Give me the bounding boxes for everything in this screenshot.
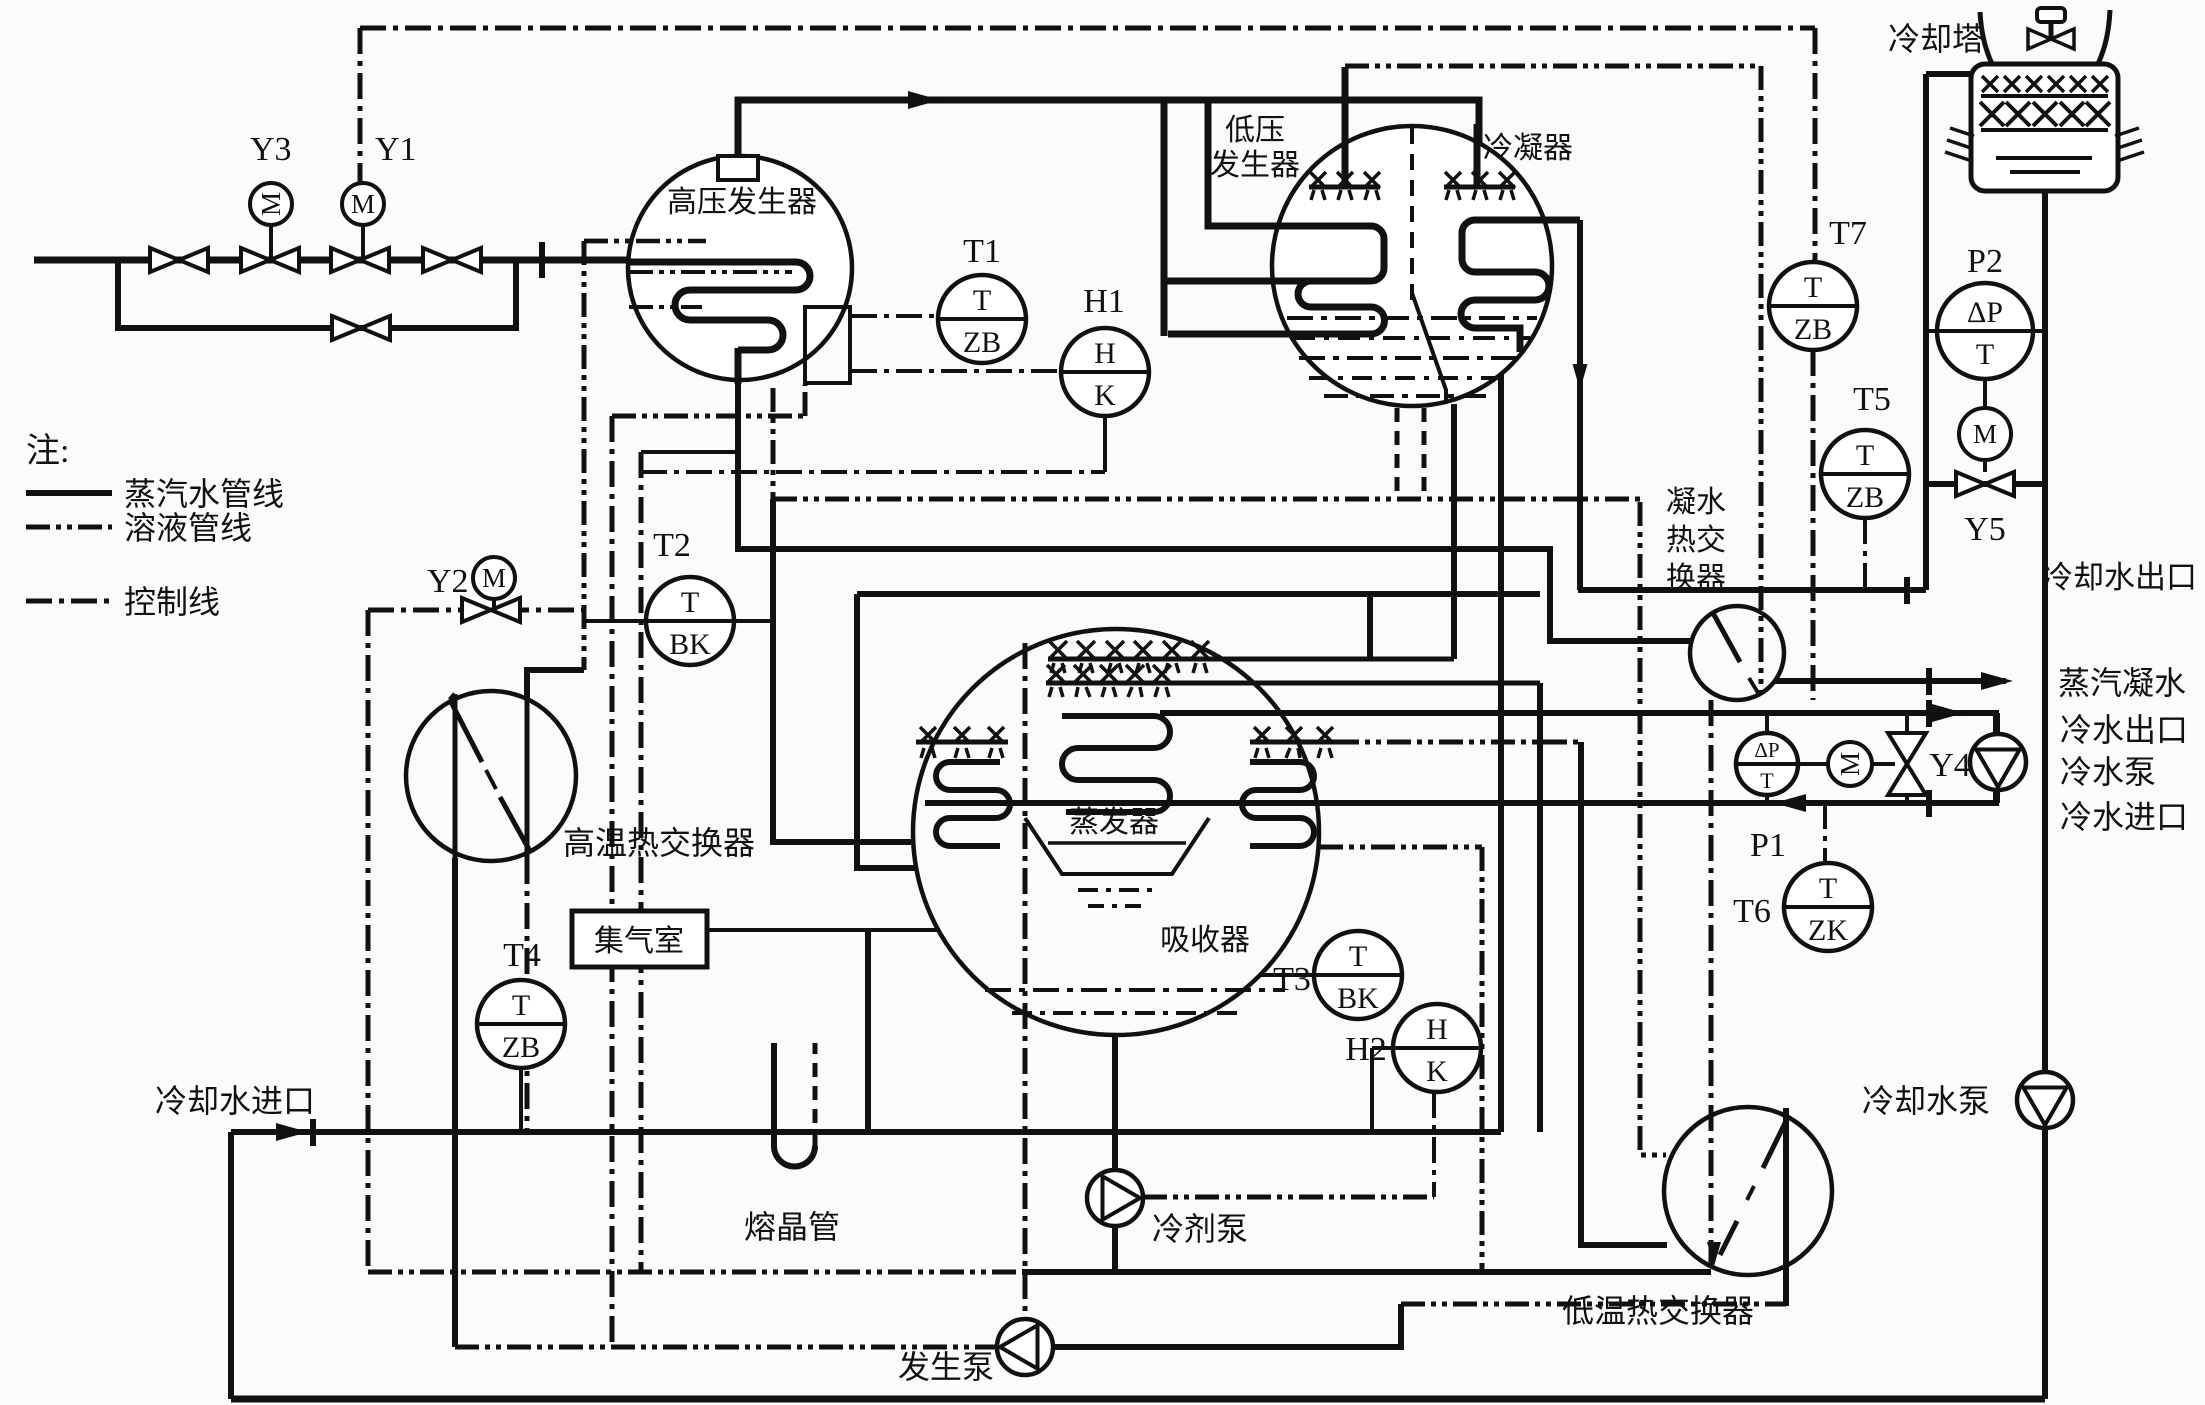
wire HT HX right drop dashed [525, 858, 530, 1132]
svg-text:H1: H1 [1083, 283, 1125, 320]
svg-text:换器: 换器 [1666, 562, 1726, 595]
wire LP coil exit row [1168, 331, 1290, 338]
svg-text:高压发生器: 高压发生器 [667, 186, 817, 219]
box HP generator level chamber [805, 307, 850, 383]
condenser level line 3 [1299, 356, 1521, 360]
svg-text:ZB: ZB [963, 326, 1001, 359]
svg-text:T: T [1804, 271, 1822, 304]
wire HP level line (over) [584, 239, 706, 244]
wire cooling water inlet run [231, 1129, 1501, 1135]
svg-text:H: H [1094, 337, 1116, 370]
HT HX right internal line [525, 694, 530, 858]
svg-text:冷水泵: 冷水泵 [2060, 754, 2156, 790]
LT HX diagonal lower [1720, 1221, 1737, 1255]
instrument P1 [1736, 733, 1798, 795]
instrument T1 [938, 233, 1026, 363]
vessel condensate heat exchanger 凝水热交换器 [1690, 606, 1784, 700]
wire cooling inlet left drop [228, 1132, 234, 1399]
wire absorber bottom to refrigerant pump [1112, 1035, 1118, 1170]
svg-text:K: K [1426, 1055, 1448, 1088]
wire refrigerant pump bottom stub [1112, 1226, 1118, 1272]
HT HX diagonal upper [450, 694, 482, 762]
arrow cooling inlet [276, 1123, 308, 1141]
svg-text:ZB: ZB [1846, 481, 1884, 514]
svg-text:冷水进口: 冷水进口 [2060, 799, 2188, 835]
wire HP generator vapor to condenser spray [738, 100, 1479, 186]
vessel LP generator / condenser [1272, 126, 1552, 406]
wire H2 left stub [1372, 1046, 1395, 1050]
wire control to T1 [851, 314, 938, 318]
wire P1 top stub [1765, 713, 1769, 734]
wire LP coil feed row inside vessel [1272, 278, 1313, 285]
coil evaporator [1062, 716, 1170, 812]
motor M of Y3 [250, 183, 292, 225]
tick chilled inlet line [1926, 790, 1932, 817]
wire bottom return rail [231, 1396, 2045, 1403]
svg-text:ZK: ZK [1808, 914, 1848, 947]
pump chilled water 冷水泵 [1970, 734, 2026, 790]
spray x-marks [1049, 641, 1209, 659]
svg-text:Y4: Y4 [1929, 747, 1971, 784]
svg-text:蒸汽水管线: 蒸汽水管线 [124, 476, 284, 512]
wire Y3 motor stem [269, 226, 273, 258]
wire absorber outlet drop [1480, 847, 1485, 1272]
wire motor to Y4 [1872, 762, 1895, 766]
instrument T5 [1821, 381, 1909, 518]
coil absorber right [1242, 762, 1314, 846]
coil condenser [1461, 220, 1580, 352]
wire cooling pump discharge [2042, 1128, 2048, 1399]
svg-text:T: T [1349, 940, 1367, 973]
wire condenser drain A drop [1451, 404, 1457, 659]
wire HP generator level line 2 [629, 269, 792, 273]
svg-text:BK: BK [669, 628, 711, 661]
svg-text:T: T [681, 586, 699, 619]
arrow chilled water out [1932, 704, 1964, 722]
wire control drop through LT HX [1709, 700, 1714, 1267]
valve Y4 [1888, 733, 1926, 795]
coil absorber left [936, 762, 1010, 846]
wire condenser spray feed inside vessel [1474, 124, 1481, 186]
wire thin link to HP drop [641, 450, 736, 454]
valve Y5 [1956, 472, 2014, 496]
wire cooling water outlet run [1578, 587, 1926, 593]
svg-text:T5: T5 [1853, 381, 1891, 418]
wire P1 bottom stub [1765, 794, 1769, 803]
legend sample solution line [26, 525, 112, 530]
svg-text:Y3: Y3 [250, 131, 292, 168]
wire T3 stub [1260, 973, 1314, 977]
instrument T3 [1314, 931, 1402, 1019]
wire refrigerant pump outlet [1143, 1195, 1434, 1200]
spray ticks [921, 748, 1003, 758]
svg-text:控制线: 控制线 [124, 584, 220, 620]
valve bypass [332, 316, 390, 340]
tower fill line 1 [1981, 94, 2108, 98]
wire HP drain to condensate HX [738, 352, 1692, 641]
svg-text:T: T [1976, 338, 1994, 371]
condensate HX diagonal upper [1713, 613, 1740, 662]
wire control through valve Y2 [368, 608, 584, 613]
wire H1 stem [1103, 416, 1107, 472]
svg-text:M: M [256, 192, 286, 216]
svg-text:Y1: Y1 [375, 131, 417, 168]
wire HP box stub [803, 385, 808, 416]
svg-text:凝水: 凝水 [1666, 486, 1726, 519]
instrument T2 [646, 527, 734, 665]
wire chilled water inlet [925, 792, 1996, 803]
svg-text:H: H [1426, 1013, 1448, 1046]
wire solution low rail dashed part [368, 1270, 1022, 1275]
spray x-marks [1310, 172, 1380, 188]
wire steam bypass loop [118, 260, 516, 328]
wire solution drop into absorber [773, 499, 915, 842]
svg-text:T: T [1856, 439, 1874, 472]
tray level dash 2 [1088, 904, 1148, 908]
wire LP coil row1 entry inside vessel [1274, 223, 1315, 230]
wire absorber left drop to cooling inlet [865, 930, 871, 1132]
condenser level line 1 [1287, 316, 1537, 320]
svg-text:冷却水出口: 冷却水出口 [2042, 560, 2197, 595]
wire P2 to motor [1983, 379, 1987, 413]
instrument H1 [1061, 283, 1149, 416]
wire solution from left column to HP box [612, 414, 805, 419]
absorber level line 1 [985, 988, 1285, 992]
spray ticks [1051, 663, 1207, 673]
wire LP generator coil feed drop [1161, 103, 1168, 336]
wire LP generator feed box [1208, 100, 1313, 226]
absorber level line 2 [1012, 1011, 1240, 1015]
arrow chilled water in [1774, 794, 1806, 812]
wire tower outlet down [2042, 191, 2048, 1072]
vessel HT heat exchanger 高温热交换器 [406, 691, 576, 861]
condenser level line 4 [1309, 376, 1507, 380]
spray x-marks [1047, 665, 1171, 683]
spray header LP generator [1309, 185, 1380, 190]
wire control left column B down [639, 452, 644, 1272]
arrow LT HX diagonal end [1707, 1242, 1721, 1266]
spray ticks [1311, 190, 1379, 200]
pump refrigerant 冷剂泵 [1087, 1170, 1143, 1226]
wire chilled pump bottom stub [1996, 790, 2000, 803]
svg-text:冷却水进口: 冷却水进口 [155, 1083, 315, 1119]
wire elbow into HT heat exchanger [527, 670, 584, 698]
wire motor to Y5 [1983, 455, 1987, 472]
svg-text:M: M [351, 189, 375, 219]
svg-text:T2: T2 [653, 527, 691, 564]
svg-text:高温热交换器: 高温热交换器 [563, 825, 755, 861]
svg-text:H2: H2 [1345, 1031, 1387, 1068]
tower water level 2 [2010, 170, 2080, 174]
spray ticks [1446, 190, 1514, 200]
valve Y3 [241, 248, 299, 272]
wire LP coil exit row inside vessel [1272, 331, 1292, 338]
wire gas chamber link [707, 928, 940, 932]
svg-text:T7: T7 [1829, 215, 1867, 252]
svg-text:P2: P2 [1967, 243, 2003, 280]
motor M of Y5 [1959, 408, 2011, 460]
svg-text:M: M [482, 563, 506, 593]
wire generator pump discharge [1053, 1304, 1401, 1347]
spray header absorber right [1250, 740, 1335, 745]
LT HX diagonal mid dash [1747, 1186, 1754, 1200]
svg-text:P1: P1 [1750, 827, 1786, 864]
svg-text:发生器: 发生器 [1210, 149, 1300, 182]
wire HP generator level line out [584, 239, 706, 244]
svg-text:冷凝器: 冷凝器 [1483, 132, 1573, 165]
tick on steam main [539, 242, 545, 278]
wire solution to LT HX bottom [1401, 1302, 1786, 1307]
svg-text:注:: 注: [26, 432, 69, 470]
wire melt-crystal U tube solid leg [774, 1043, 815, 1166]
condenser level line 2 [1293, 336, 1530, 340]
arrow steam line [908, 91, 940, 109]
wire condenser coil exit drop [1577, 220, 1583, 590]
svg-text:热交: 热交 [1666, 524, 1726, 557]
divider dashed in condenser [1410, 128, 1414, 300]
wire LP coil feed row [1164, 278, 1300, 285]
legend sample steam line [26, 490, 112, 496]
wire control H1 to left column [641, 470, 1105, 474]
wire P1 to motor [1797, 762, 1828, 766]
svg-text:M: M [1973, 419, 1997, 449]
wire LT HX right riser [1783, 1108, 1789, 1306]
svg-text:低温热交换器: 低温热交换器 [1562, 1293, 1754, 1329]
svg-text:ZB: ZB [1794, 313, 1832, 346]
wire solution drop left of HP generator [582, 241, 587, 670]
svg-text:ΔP: ΔP [1967, 296, 2003, 329]
spray x-marks [920, 727, 1004, 743]
legend sample control line [26, 599, 112, 604]
wire condenser left spray feed [1342, 67, 1349, 186]
svg-text:T6: T6 [1733, 893, 1771, 930]
tower fill x row 1 [1982, 76, 2108, 92]
wire control left column A down [610, 416, 615, 1347]
wire solution drop through condensate HX [1759, 66, 1764, 692]
wire H2 drop [1432, 1092, 1436, 1197]
condenser level line 5 [1324, 394, 1488, 398]
svg-text:冷却水泵: 冷却水泵 [1862, 1083, 1990, 1119]
wire HT HX left drop [452, 858, 458, 1347]
tower water level 1 [1996, 156, 2092, 160]
wire solution drop to LT heat exchanger [1640, 502, 1666, 1155]
spray ticks [1255, 748, 1332, 758]
flow arrow condenser exit [1573, 364, 1588, 390]
wire T2 right stub [734, 619, 773, 623]
svg-text:K: K [1094, 379, 1116, 412]
svg-text:蒸汽凝水: 蒸汽凝水 [2058, 665, 2186, 701]
instrument T7 [1769, 215, 1867, 350]
wire control to H1 [851, 369, 1061, 373]
instrument T6 [1784, 863, 1872, 951]
wire evaporator box top run [857, 591, 1540, 597]
spray x-marks [1445, 172, 1515, 188]
instrument H2 [1393, 1004, 1481, 1092]
tick cooling outlet [1904, 577, 1910, 604]
svg-text:集气室: 集气室 [594, 925, 684, 958]
svg-text:T4: T4 [503, 937, 541, 974]
HT HX diagonal lower [500, 797, 531, 853]
svg-text:冷水出口: 冷水出口 [2060, 712, 2188, 748]
wire evaporator spray header 2 [1046, 681, 1540, 686]
cooling tower 冷却塔 [1971, 8, 2118, 191]
svg-text:M: M [1835, 752, 1865, 776]
arrow steam condensate out [1981, 672, 2013, 690]
spray x-marks [1254, 727, 1333, 743]
box gas collection chamber 集气室 [572, 911, 707, 967]
wire Y2 motor stem [492, 599, 496, 610]
tick condensate line [1926, 668, 1932, 695]
HP level line 2 (over) [629, 270, 792, 274]
svg-text:T3: T3 [1273, 961, 1311, 998]
wire T2 left stub [584, 619, 646, 623]
svg-text:BK: BK [1337, 982, 1379, 1015]
svg-text:T: T [512, 989, 530, 1022]
spray header condenser [1444, 185, 1515, 190]
wire Y4 top stub [1905, 713, 1909, 737]
wire P2 left stub [1926, 329, 1937, 333]
condenser bottom dashed drains [1395, 408, 1400, 498]
wire control drop to T7 [1813, 28, 1818, 262]
wire Y4 bottom stub [1905, 791, 1909, 803]
underline 蒸发器 [1048, 841, 1186, 845]
wire steam supply main [34, 257, 632, 264]
wire riser to tower top [1923, 74, 1929, 590]
vessel LT heat exchanger 低温热交换器 [1664, 1107, 1832, 1275]
vessel HP generator 高压发生器 [628, 156, 852, 380]
evaporator tray [1025, 818, 1209, 874]
wire melt-crystal U tube dashed leg [813, 1043, 818, 1146]
tray level dash 1 [1078, 888, 1158, 892]
spray header absorber left [916, 740, 1008, 745]
svg-text:Y2: Y2 [427, 563, 469, 600]
instrument T4 [477, 937, 565, 1068]
svg-text:T: T [1819, 872, 1837, 905]
condenser liquid boundary [1412, 293, 1446, 400]
wire T6 stem [1823, 803, 1827, 862]
tick cooling inlet [310, 1119, 316, 1146]
tower fill line 2 [1981, 128, 2108, 132]
coil LP generator [1290, 226, 1385, 334]
svg-text:冷剂泵: 冷剂泵 [1152, 1211, 1248, 1247]
valve inlet 1 [150, 248, 208, 272]
HT HX left internal line [453, 694, 458, 858]
wire absorber outlet solution [1319, 845, 1482, 850]
wire absorber spray solution feed [1335, 740, 1581, 745]
tower side hatch left [1945, 128, 1974, 160]
svg-text:T: T [1760, 768, 1774, 793]
HP level line 3 (over) [629, 305, 702, 309]
wire drop right of absorber [1537, 683, 1543, 1132]
svg-text:ZB: ZB [502, 1031, 540, 1064]
wire cooling water riser B [1498, 374, 1504, 1132]
instrument P2 [1937, 243, 2033, 379]
svg-text:吸收器: 吸收器 [1160, 924, 1250, 957]
wire riser top corner [1926, 71, 1974, 77]
wire control drop to Y1 motor [358, 28, 363, 182]
wire steam condensate outlet [1775, 678, 2006, 684]
condensate HX diagonal lower dash [1749, 678, 1760, 696]
svg-text:T: T [973, 284, 991, 317]
wire T5 control down [1863, 518, 1867, 590]
wire solution mid run [773, 497, 1640, 502]
motor M of Y1 [342, 183, 384, 225]
wire T7 control down [1811, 350, 1816, 700]
svg-text:Y5: Y5 [1964, 511, 2006, 548]
coil HP generator heating coil [630, 262, 810, 350]
wire HP coil outlet inside vessel [735, 348, 742, 384]
svg-text:溶液管线: 溶液管线 [124, 510, 252, 546]
wire evaporator box left drop [857, 594, 916, 868]
wire Y1 motor stem [361, 226, 365, 258]
motor M chilled water valve [1828, 742, 1872, 786]
wire T4 stem [519, 1069, 523, 1132]
pump generator 发生泵 [997, 1319, 1053, 1375]
wire control far-left drop [366, 610, 371, 1272]
wire chilled water outlet [1160, 713, 1996, 733]
wire solution rail to generator pump [455, 1345, 997, 1350]
wire control line top run [360, 26, 1815, 31]
wire solution riser to LT heat exchanger [1581, 742, 1667, 1245]
wire P2 right stub [2033, 329, 2045, 333]
wire evaporator spray header 1 [1048, 657, 1454, 662]
svg-text:发生泵: 发生泵 [898, 1349, 994, 1385]
svg-text:冷却塔: 冷却塔 [1888, 21, 1984, 57]
motor M of Y2 [473, 557, 515, 599]
tower fill x row 2 [1980, 102, 2110, 126]
wire Y5 cross line [1926, 481, 2045, 487]
spray ticks [1049, 687, 1169, 697]
svg-text:蒸发器: 蒸发器 [1069, 806, 1159, 839]
valve Y2 [462, 598, 520, 622]
wire control drop inside circle to generator pump [1023, 643, 1028, 1318]
wire H2 corner link [1306, 1048, 1372, 1133]
svg-text:低压: 低压 [1225, 114, 1285, 147]
wire evaporator box inner drop [1367, 594, 1373, 659]
valve inlet 4 [423, 248, 481, 272]
wire solution line to right column [1345, 64, 1761, 69]
wire solution low rail solid part [1022, 1269, 1711, 1275]
tower side hatch right [2115, 128, 2144, 160]
wire chilled pump top stub [1996, 713, 2000, 734]
svg-text:T1: T1 [963, 233, 1001, 270]
wire LP spray feed inside vessel [1342, 124, 1349, 186]
wire HP generator level line 3 [629, 305, 702, 309]
pump cooling water 冷却水泵 [2017, 1072, 2073, 1128]
svg-text:ΔP: ΔP [1754, 738, 1779, 762]
tick chilled outlet line [1926, 700, 1932, 727]
LT HX diagonal upper [1763, 1115, 1789, 1168]
svg-text:熔晶管: 熔晶管 [744, 1209, 840, 1245]
HT HX diagonal mid dash [486, 770, 496, 789]
wire HP box down drop [771, 388, 776, 499]
vessel evaporator / absorber [913, 629, 1319, 1035]
valve Y1 [331, 248, 389, 272]
